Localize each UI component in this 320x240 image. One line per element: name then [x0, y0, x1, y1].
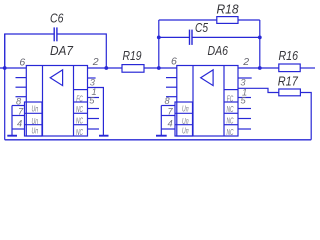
svg-text:DA7: DA7 — [50, 44, 74, 58]
svg-text:Uп: Uп — [182, 104, 189, 113]
DA7 pin 8 stub — [12, 105, 25, 107]
wire: C5 wire left — [159, 36, 190, 38]
wire: C6 feedback top wire left segment — [5, 34, 55, 68]
resistor R18 — [217, 17, 238, 24]
wire: R18 top wire left — [159, 19, 217, 21]
DA7 pin 5 stub — [88, 97, 100, 99]
svg-text:FC: FC — [76, 93, 83, 103]
wire: R18 top wire right — [238, 19, 260, 21]
wire: R16 to edge — [300, 67, 315, 69]
wire: DA6 pin 1 to R17 — [238, 88, 279, 92]
svg-text:Uп: Uп — [182, 127, 189, 136]
wire: feedback right leg — [259, 20, 261, 68]
svg-text:Uп: Uп — [32, 127, 39, 136]
DA6 left unconnected stubs — [166, 77, 177, 79]
DA6 nc stubs — [238, 108, 251, 110]
svg-text:2: 2 — [242, 56, 249, 68]
svg-text:NC: NC — [227, 116, 234, 126]
wire: DA7 output to R19 — [88, 67, 123, 69]
svg-text:NC: NC — [76, 104, 83, 114]
svg-text:8: 8 — [16, 97, 22, 107]
svg-text:NC: NC — [227, 104, 234, 114]
node C: feedback left leg junction — [157, 66, 161, 70]
svg-text:FC: FC — [227, 93, 234, 103]
svg-text:R17: R17 — [278, 75, 299, 89]
svg-text:Uп: Uп — [32, 104, 39, 113]
DA6 pin 5 stub — [238, 97, 251, 99]
svg-text:5: 5 — [89, 95, 95, 105]
wire: C6 feedback top wire right segment — [57, 34, 106, 68]
ground: DA7 left chassis — [11, 106, 13, 136]
svg-text:R18: R18 — [217, 3, 239, 17]
svg-text:NC: NC — [227, 127, 234, 137]
DA7 supply cell box — [25, 102, 43, 136]
ground: DA6 left chassis — [160, 106, 162, 136]
svg-text:7: 7 — [168, 106, 174, 116]
capacitor C6 — [53, 27, 55, 41]
node A: output junction at left — [3, 66, 7, 70]
svg-text:R16: R16 — [279, 49, 299, 63]
svg-text:Uп: Uп — [182, 117, 189, 126]
DA6 right cell lines — [224, 89, 238, 91]
op-amp DA7 triangle — [50, 70, 62, 86]
ground: DA7 right chassis bar — [99, 135, 109, 137]
node D: C5 left junction — [157, 36, 161, 40]
wire: R19 to DA6 pin 6 — [144, 67, 177, 69]
wire: left vertical to bottom rail — [4, 34, 6, 140]
wire: bottom rail — [5, 139, 312, 141]
DA7 pin 3 stub — [88, 77, 96, 79]
op-amp DA7 body — [26, 66, 87, 137]
op-amp DA6 triangle — [201, 70, 213, 86]
svg-text:R19: R19 — [123, 49, 142, 63]
svg-text:4: 4 — [17, 119, 22, 129]
svg-text:6: 6 — [19, 57, 25, 69]
DA6 pin 4 stub — [161, 128, 175, 130]
svg-text:6: 6 — [171, 56, 177, 68]
svg-text:7: 7 — [18, 106, 24, 116]
DA7 right cell lines — [74, 89, 88, 91]
DA6 pin 7 stub — [161, 115, 175, 117]
DA7 pin 1 stub to ground bus — [88, 88, 104, 136]
DA6 supply cell box — [175, 102, 193, 136]
resistor R16 — [279, 64, 300, 72]
DA7 pin 4 stub — [12, 128, 25, 130]
svg-text:Uп: Uп — [32, 117, 39, 126]
DA6 pin 8 stub — [161, 105, 175, 107]
svg-text:C6: C6 — [50, 12, 64, 26]
node B: C6 leg junction — [104, 66, 108, 70]
svg-text:5: 5 — [241, 95, 247, 105]
DA6 pin 3 stub — [238, 77, 252, 79]
svg-text:NC: NC — [76, 116, 83, 126]
wire: R17 down to bottom rail — [300, 93, 311, 140]
capacitor C5 — [189, 30, 191, 45]
DA7 pin 7 stub — [12, 115, 25, 117]
node E: C5 right junction — [258, 36, 262, 40]
svg-text:C5: C5 — [195, 21, 208, 35]
op-amp DA6 body — [177, 66, 238, 137]
wire: DA6 output to R16 — [238, 67, 279, 69]
wire: input line into DA7 pin 6 — [0, 67, 26, 69]
svg-text:4: 4 — [168, 119, 173, 129]
DA7 nc stubs — [88, 108, 100, 110]
svg-text:2: 2 — [92, 56, 99, 68]
svg-text:DA6: DA6 — [208, 44, 229, 58]
node F: feedback right leg junction — [258, 66, 262, 70]
resistor R19 — [122, 65, 144, 73]
svg-text:3: 3 — [240, 77, 246, 87]
svg-text:3: 3 — [90, 78, 96, 88]
svg-text:8: 8 — [165, 96, 171, 106]
resistor R17 — [279, 89, 301, 96]
wire: feedback left leg — [158, 20, 160, 68]
svg-text:NC: NC — [76, 127, 83, 137]
DA7 left unconnected stubs — [16, 77, 27, 79]
wire: C5 wire right — [192, 36, 260, 38]
